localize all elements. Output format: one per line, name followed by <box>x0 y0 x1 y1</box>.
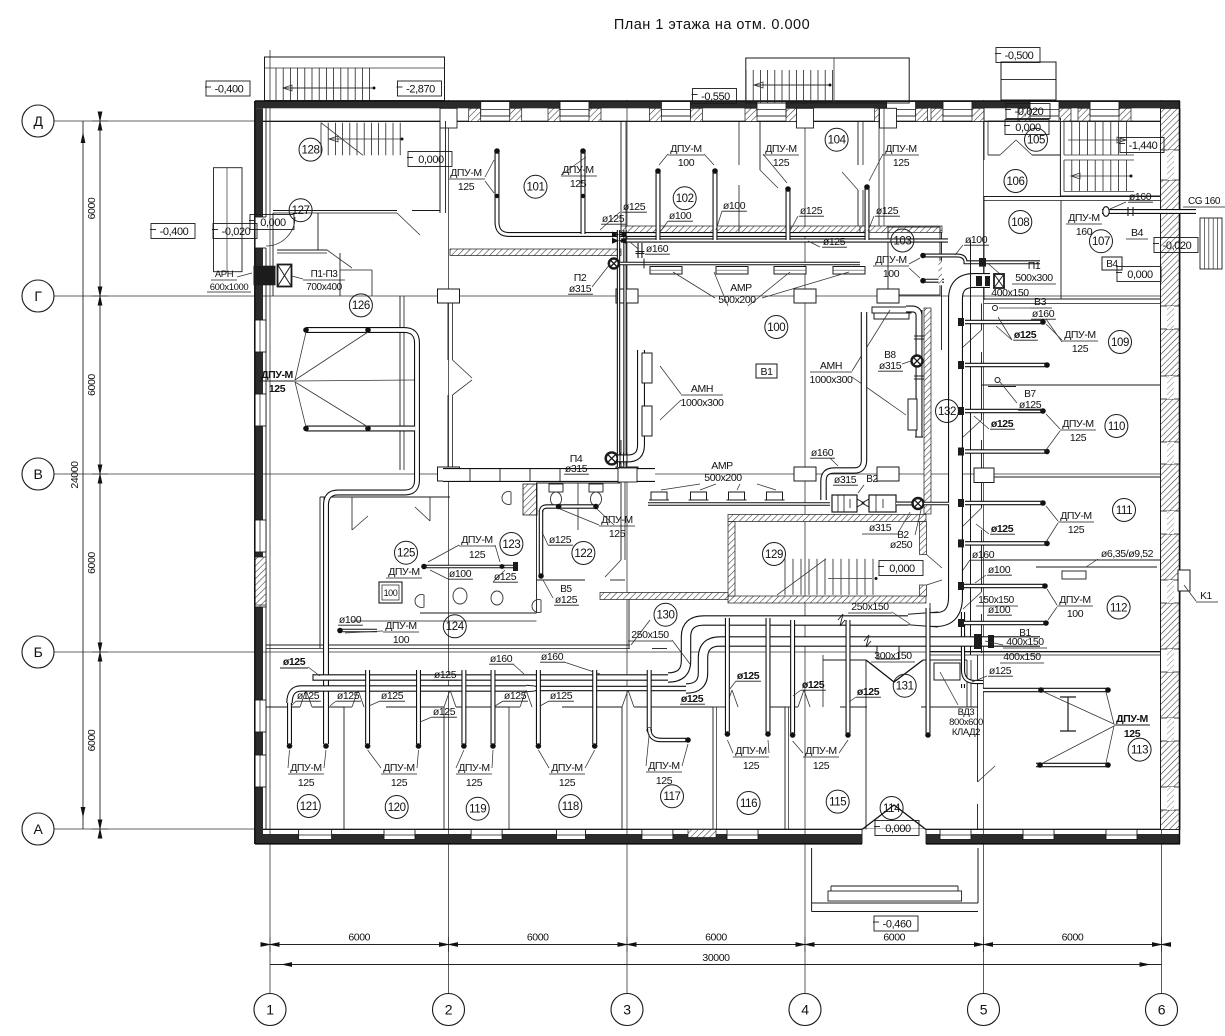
svg-text:АРН: АРН <box>215 269 234 280</box>
left dimension chain line 6000s <box>99 121 101 829</box>
rooms 124 south wall / corridor north wall y=646 <box>266 644 630 646</box>
elevation mark -0,020 <box>1006 104 1050 119</box>
room 125 exhaust duct <box>424 565 516 569</box>
duct taper <box>526 685 535 692</box>
svg-text:0,000: 0,000 <box>889 563 915 575</box>
elevation mark -0,020 <box>213 224 257 239</box>
svg-text:250x150: 250x150 <box>631 629 669 641</box>
room 114 number circle <box>880 797 903 820</box>
elevation mark -0,020 <box>1154 238 1198 253</box>
south room divider x=444 <box>443 707 445 830</box>
hall walls near room 103 <box>888 227 940 295</box>
svg-text:0,000: 0,000 <box>1127 269 1153 281</box>
exterior louver grille right wall <box>1200 218 1222 269</box>
window in top wall <box>943 102 972 117</box>
room 100 number circle <box>765 316 788 339</box>
svg-text:В: В <box>34 466 43 482</box>
room 104 duct drops <box>786 188 791 240</box>
exhaust drop duct x=792.6 <box>790 620 795 733</box>
room 126 duct Z-jog down to south corridor <box>326 462 417 744</box>
exhaust drop duct x=493 <box>491 670 496 744</box>
svg-text:6000: 6000 <box>86 197 98 219</box>
svg-text:250x150: 250x150 <box>851 601 889 613</box>
hatched pier in toilet block <box>523 484 537 515</box>
svg-text:30000: 30000 <box>702 952 730 964</box>
svg-text:6000: 6000 <box>86 552 98 574</box>
duct СГ160 through right wall <box>1102 209 1196 214</box>
АМР supply duct south of room 100 (y=504) <box>648 502 830 506</box>
south room divider x=786 <box>784 707 786 830</box>
bottom outer wall dotted band <box>255 834 1180 844</box>
damper (crossed box) <box>994 274 1004 288</box>
svg-text:ДПУ-М: ДПУ-М <box>765 143 797 155</box>
svg-text:ø125: ø125 <box>434 669 457 681</box>
room 124 exhaust duct <box>340 629 377 633</box>
elevation mark -0,400 <box>206 81 250 96</box>
supply main П4 duct on axis В <box>443 468 655 482</box>
leader fans south labels <box>288 750 290 768</box>
svg-text:ø125: ø125 <box>1014 329 1037 341</box>
column at (627,296) <box>616 289 638 303</box>
svg-text:ø125: ø125 <box>857 686 880 698</box>
room 131 number circle <box>893 674 916 697</box>
svg-text:116: 116 <box>740 798 757 810</box>
В2 flex coupling <box>857 499 869 507</box>
svg-text:ø100: ø100 <box>339 614 362 626</box>
toilet partition x=537 <box>536 483 538 613</box>
room 122 south wall y=580 <box>537 579 586 581</box>
room 127 niche walls <box>340 269 372 271</box>
svg-text:4: 4 <box>801 1002 809 1018</box>
elevation mark -2,870 <box>398 81 442 96</box>
room 130 door opening to corridor <box>631 620 650 645</box>
ceiling diffuser <box>716 267 748 275</box>
left wall inner face line <box>265 108 267 829</box>
svg-text:600x1000: 600x1000 <box>210 282 249 293</box>
pier block in top wall at x=888 <box>880 108 897 128</box>
riser pipe line <box>970 240 972 655</box>
fan symbol at (918,503.5) <box>913 498 924 509</box>
svg-text:ø125: ø125 <box>433 706 456 718</box>
svg-text:ø160: ø160 <box>490 653 513 665</box>
room 113 duct network top <box>983 688 1108 693</box>
room 128 number circle <box>299 138 322 161</box>
stair in room 128 <box>320 123 322 156</box>
room 113 duct network bottom <box>1036 763 1108 768</box>
room 127 partition walls <box>272 213 274 296</box>
svg-text:ø160: ø160 <box>1129 191 1152 203</box>
svg-text:ДПУ-М: ДПУ-М <box>383 762 415 774</box>
svg-text:6000: 6000 <box>348 932 370 944</box>
ДПУ-М 100 unit box room 125 <box>379 582 402 603</box>
АМН vertical duct with elbow to П4 fan <box>618 350 641 458</box>
exhaust drop duct x=538.4 <box>536 670 541 744</box>
svg-text:-0,020: -0,020 <box>1163 240 1192 252</box>
room 116 number circle <box>737 792 760 815</box>
label В4 boxed <box>1102 257 1122 270</box>
hatched piers flanking top window <box>875 108 887 121</box>
svg-text:ø125: ø125 <box>283 656 306 668</box>
svg-text:110: 110 <box>1108 421 1125 433</box>
svg-text:ДПУ-М: ДПУ-М <box>805 745 837 757</box>
room 104 number circle <box>825 128 848 151</box>
entrance opening in bottom wall <box>862 829 926 845</box>
svg-text:126: 126 <box>352 300 370 312</box>
svg-text:125: 125 <box>469 549 486 561</box>
duct elbow from АМН top grille <box>906 309 919 316</box>
top wall outer edge line <box>255 100 1180 102</box>
wall room 128 right <box>439 121 441 213</box>
room 103 branch ducts <box>923 256 1040 263</box>
gas pipe with device room 112 <box>1036 566 1157 568</box>
hatched pier left wall 1 <box>255 557 266 605</box>
south corridor trunk 300x150 jog and east run <box>686 642 1040 689</box>
window in top wall <box>661 102 690 117</box>
svg-text:120: 120 <box>388 802 406 814</box>
svg-text:ø125: ø125 <box>991 418 1014 430</box>
svg-text:107: 107 <box>1092 236 1110 248</box>
axis bubble 6 <box>1146 994 1178 1026</box>
svg-text:ø315: ø315 <box>879 360 902 372</box>
svg-text:400x150: 400x150 <box>1003 651 1041 663</box>
south corridor trunk 300x150 (lower run west) <box>290 689 527 704</box>
left outer wall dotted band <box>255 108 263 841</box>
room 110 number circle <box>1105 415 1128 438</box>
small junction marks on riser <box>958 318 964 326</box>
west wall of north-south corridor (x=942) <box>941 232 943 350</box>
axis line 2 (vertical) <box>448 100 450 993</box>
room 120 number circle <box>385 796 408 819</box>
svg-text:ø6,35/ø9,52: ø6,35/ø9,52 <box>1101 548 1154 560</box>
elevation mark -0,400 <box>151 224 195 239</box>
riser duct down to room 113 <box>961 684 965 688</box>
corridor wall segment below room 101 (hatched) <box>450 249 621 256</box>
hatched piers flanking top window <box>469 108 481 121</box>
svg-text:ДПУ-М: ДПУ-М <box>562 164 594 176</box>
svg-text:ДПУ-М: ДПУ-М <box>1068 212 1100 224</box>
room 105 number circle <box>1025 128 1048 151</box>
right outer wall hatched band <box>1161 109 1181 830</box>
svg-text:6000: 6000 <box>883 932 905 944</box>
room 124 number circle <box>443 615 466 638</box>
south room divider x=509 <box>508 707 510 830</box>
column at (448.5,296) <box>438 289 460 303</box>
svg-text:ø315: ø315 <box>565 463 588 475</box>
svg-text:125: 125 <box>559 777 576 789</box>
АМН vertical duct right (x=919) <box>916 310 923 437</box>
svg-text:5: 5 <box>980 1002 988 1018</box>
svg-text:6000: 6000 <box>86 374 98 396</box>
wall between 107 and 108 (x=1063) <box>1060 201 1062 300</box>
door swings rooms 109-111 <box>962 330 982 348</box>
svg-text:АМН: АМН <box>820 360 842 372</box>
partition in room 102 (x=740) <box>738 121 740 165</box>
svg-text:125: 125 <box>743 760 760 772</box>
svg-text:ø125: ø125 <box>1019 399 1042 411</box>
top wall inner face line <box>255 121 1180 123</box>
svg-text:-0,500: -0,500 <box>1005 50 1034 62</box>
svg-text:ДПУ-М: ДПУ-М <box>1059 594 1091 606</box>
svg-text:-0,460: -0,460 <box>883 918 912 930</box>
WC toilets room 123 <box>549 484 563 492</box>
В2 silencer 1 <box>832 495 857 512</box>
room 125 number circle <box>395 541 418 564</box>
axis bubble Б <box>22 636 54 668</box>
svg-text:125: 125 <box>1070 432 1087 444</box>
column at (805,474) <box>794 467 816 481</box>
hatched piers flanking top window <box>745 108 757 121</box>
svg-text:ø125: ø125 <box>800 205 823 217</box>
room 126 number circle <box>349 294 372 317</box>
window in right wall <box>1161 649 1181 672</box>
svg-text:ø125: ø125 <box>494 571 517 583</box>
south room divider x=622 <box>621 707 623 830</box>
elevation mark -1,440 <box>1120 138 1164 153</box>
svg-text:ø125: ø125 <box>504 690 527 702</box>
svg-text:101: 101 <box>527 182 545 194</box>
hatched piers flanking top window <box>548 108 560 121</box>
svg-text:ø125: ø125 <box>623 201 646 213</box>
svg-text:ДПУ-М: ДПУ-М <box>261 369 293 381</box>
svg-text:ø125: ø125 <box>297 690 320 702</box>
room 123 number circle <box>500 533 523 556</box>
urinal room 124 west <box>415 595 424 608</box>
window in right wall <box>1161 306 1181 329</box>
room 127 number circle <box>289 199 312 222</box>
svg-text:ø125: ø125 <box>991 523 1014 535</box>
В1 dampers on lower trunk <box>974 634 982 649</box>
svg-text:108: 108 <box>1011 217 1029 229</box>
duct В2 to riser <box>924 502 949 506</box>
duct to fan В2 <box>896 502 912 506</box>
elevation mark -0,460 <box>874 916 918 931</box>
svg-text:125: 125 <box>391 777 408 789</box>
svg-text:ДПУ-М: ДПУ-М <box>385 620 417 632</box>
hatched pier inside room 103 east wall <box>939 261 943 286</box>
svg-text:CG 160: CG 160 <box>1188 196 1221 207</box>
svg-text:103: 103 <box>893 235 911 247</box>
elevation mark 0,000 <box>879 561 923 576</box>
window in bottom wall <box>557 830 586 840</box>
window in right wall <box>1161 580 1181 603</box>
east corridor wall x=981 with doors (rooms 109-111) <box>981 304 983 331</box>
diffuser АМР south <box>691 492 707 500</box>
svg-text:-0,400: -0,400 <box>160 226 189 238</box>
column block on 110/111 wall <box>974 468 994 483</box>
urinal room 124 east <box>532 600 541 613</box>
window in bottom wall <box>940 830 971 840</box>
door opening room 108 <box>984 260 1000 274</box>
room 130 number circle <box>654 603 677 626</box>
svg-text:ø125: ø125 <box>823 236 846 248</box>
svg-text:118: 118 <box>562 801 579 813</box>
axis line Д (horizontal) <box>54 120 1180 122</box>
svg-text:119: 119 <box>469 804 486 816</box>
hatched piers flanking top window <box>1018 108 1030 121</box>
left wall outer edge line <box>254 101 256 844</box>
svg-text:1: 1 <box>266 1002 274 1018</box>
top outer wall dark band <box>255 102 1180 109</box>
АМН grille right <box>908 399 917 430</box>
room 114 north wall with door zigzag <box>823 659 866 661</box>
room 106 number circle <box>1004 170 1027 193</box>
svg-text:125: 125 <box>893 157 910 169</box>
axis bubble Г <box>22 280 54 312</box>
svg-text:-0,550: -0,550 <box>701 91 730 103</box>
stair top-right upper flight <box>1063 121 1065 155</box>
svg-text:0,000: 0,000 <box>885 823 911 835</box>
window in left wall <box>255 320 267 352</box>
hatched piers flanking top window <box>1078 108 1090 121</box>
stair arrow top-middle <box>755 84 830 86</box>
svg-text:100: 100 <box>678 157 695 169</box>
room 132 number circle <box>936 400 959 423</box>
room 126 duct upper horizontal <box>306 330 417 470</box>
fan symbol at (613.8,263.5) <box>609 259 619 269</box>
svg-text:106: 106 <box>1007 176 1025 188</box>
room 117 number circle <box>661 785 684 808</box>
bottom dimension chain line 6000s <box>270 944 1162 946</box>
axis line 5 (vertical) <box>983 100 985 993</box>
svg-text:ø125: ø125 <box>549 534 572 546</box>
wall room 128 south <box>273 210 397 212</box>
exhaust drop duct x=289.5 <box>287 703 292 744</box>
svg-text:ø160: ø160 <box>541 651 564 663</box>
room 114 east wall x=967 <box>966 660 968 707</box>
svg-text:123: 123 <box>502 539 520 551</box>
room 112 branch ducts <box>963 584 1044 589</box>
window in right wall <box>1161 511 1181 534</box>
column at (888,652) <box>877 645 899 659</box>
elevation mark 0,000 <box>1005 120 1049 135</box>
svg-text:125: 125 <box>1072 343 1089 355</box>
hatched pier in bottom wall <box>688 830 716 838</box>
exhaust drop duct x=727.4 <box>725 618 730 732</box>
svg-text:В2: В2 <box>866 474 878 485</box>
svg-text:100: 100 <box>384 588 398 598</box>
room 105 door zigzag <box>1000 140 1032 155</box>
svg-text:6: 6 <box>1158 1002 1166 1018</box>
axis line Б (horizontal) <box>54 651 1180 653</box>
svg-text:План 1 этажа на отм. 0.000: План 1 этажа на отм. 0.000 <box>614 17 810 33</box>
axis bubble Д <box>22 105 54 137</box>
В2 exhaust branch duct from АМН down <box>824 312 865 500</box>
hatched piers flanking top window <box>931 108 943 121</box>
column at (888,296) <box>877 289 899 303</box>
axis line 1 (vertical) <box>269 50 271 993</box>
svg-text:125: 125 <box>458 181 475 193</box>
column at (448.5,474) <box>438 467 460 481</box>
right wall outer edge line <box>1179 101 1181 844</box>
П4 duct junction box <box>618 468 637 482</box>
wall between rooms 110 and 111 <box>982 476 1161 478</box>
svg-text:П1-П3: П1-П3 <box>311 269 339 280</box>
svg-text:3: 3 <box>623 1002 631 1018</box>
diffuser АМР south <box>651 492 667 500</box>
entry porch at bottom <box>811 848 813 903</box>
elevation mark 0,000 <box>408 152 452 167</box>
axis line А (horizontal) <box>54 828 1180 830</box>
stair arrow top-left <box>284 87 374 89</box>
svg-text:B1: B1 <box>760 366 773 378</box>
svg-text:-2,870: -2,870 <box>406 83 435 95</box>
svg-text:Д: Д <box>33 113 43 129</box>
svg-text:104: 104 <box>828 135 847 147</box>
svg-text:ø125: ø125 <box>381 690 404 702</box>
svg-text:ø100: ø100 <box>988 564 1011 576</box>
svg-text:500x300: 500x300 <box>1015 272 1053 284</box>
I-beam column room 113 <box>1060 697 1076 731</box>
window in bottom wall <box>1023 830 1054 840</box>
svg-text:6000: 6000 <box>705 932 727 944</box>
svg-text:ДПУ-М: ДПУ-М <box>1062 418 1094 430</box>
fan symbol at (917,361) <box>912 356 923 367</box>
hatched piers flanking top window <box>649 108 661 121</box>
room 129 hatched walls <box>728 515 926 522</box>
svg-text:-1,440: -1,440 <box>1129 140 1158 152</box>
svg-text:113: 113 <box>1131 744 1148 756</box>
svg-text:ø125: ø125 <box>555 594 578 606</box>
pier block in top wall at x=805 <box>797 108 814 128</box>
stair in room 129 <box>784 559 786 595</box>
window in left wall <box>255 394 267 426</box>
svg-text:124: 124 <box>446 621 465 633</box>
svg-text:100: 100 <box>883 268 900 280</box>
svg-text:100: 100 <box>393 634 410 646</box>
diffuser АМР south <box>767 492 783 500</box>
svg-text:ø315: ø315 <box>834 474 857 486</box>
south rooms top wall y=707 with door openings <box>266 706 300 708</box>
svg-text:125: 125 <box>813 760 830 772</box>
door opening in left wall with swing <box>254 217 267 248</box>
svg-text:6000: 6000 <box>527 932 549 944</box>
window in right wall <box>1161 442 1181 464</box>
exhaust drop duct x=367.6 <box>365 670 370 744</box>
svg-text:КЛАД2: КЛАД2 <box>952 727 980 738</box>
svg-text:ø100: ø100 <box>988 604 1011 616</box>
svg-text:125: 125 <box>1068 524 1085 536</box>
room 102 duct drops <box>656 170 661 240</box>
diffuser АМР south <box>729 492 745 500</box>
window in top wall <box>481 102 510 117</box>
axis line Г (horizontal) <box>54 295 1180 297</box>
ВД3 equipment rect <box>934 663 960 680</box>
axis bubble 4 <box>789 994 821 1026</box>
damper (crossed box) <box>278 265 292 287</box>
leader lines ø125 south <box>291 701 296 706</box>
room 107 number circle <box>1090 230 1113 253</box>
axis Г wall right section (south of 107/108) <box>984 298 1161 300</box>
window in top wall <box>1090 102 1119 117</box>
exhaust collector duct north second run (y=241) <box>621 238 948 242</box>
svg-text:127: 127 <box>292 205 310 217</box>
room 131 walls <box>929 603 931 652</box>
axis line 3 (vertical) <box>626 100 628 993</box>
toilet partition x=578 <box>577 483 579 530</box>
axis line 6 (vertical) <box>1161 100 1163 993</box>
svg-text:-0,020: -0,020 <box>1015 106 1044 118</box>
axis bubble 2 <box>433 994 465 1026</box>
svg-text:129: 129 <box>765 549 783 561</box>
svg-text:В4: В4 <box>1131 227 1144 239</box>
room 109 number circle <box>1109 331 1132 354</box>
svg-text:ДПУ-М: ДПУ-М <box>1116 713 1148 725</box>
window in bottom wall <box>642 830 673 840</box>
window in right wall <box>1161 718 1181 741</box>
ø160 stub duct down from collector <box>638 243 643 258</box>
axis line 4 (vertical) <box>804 100 806 993</box>
vertical wall x=402 between rooms 126 and corridor <box>399 296 401 470</box>
